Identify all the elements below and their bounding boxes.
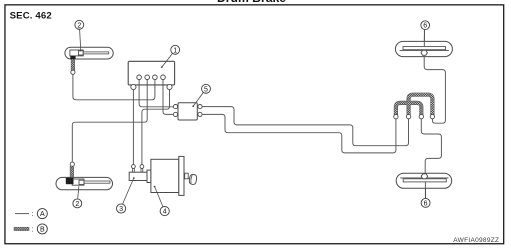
svg-text:2: 2 xyxy=(77,22,81,29)
svg-text:6: 6 xyxy=(423,23,427,30)
svg-text:2: 2 xyxy=(75,201,79,208)
svg-text:3: 3 xyxy=(119,206,123,213)
svg-text:A: A xyxy=(40,211,45,218)
svg-text:AWFIA0989ZZ: AWFIA0989ZZ xyxy=(453,237,499,244)
svg-text:1: 1 xyxy=(173,47,177,54)
svg-text:4: 4 xyxy=(163,209,167,216)
svg-text:5: 5 xyxy=(204,86,208,93)
svg-text:SEC. 462: SEC. 462 xyxy=(10,11,52,22)
svg-text:6: 6 xyxy=(424,200,428,207)
svg-text:B: B xyxy=(40,226,45,233)
svg-text::: : xyxy=(31,211,33,218)
svg-text:Drum Brake: Drum Brake xyxy=(217,0,286,5)
svg-text::: : xyxy=(31,226,33,233)
